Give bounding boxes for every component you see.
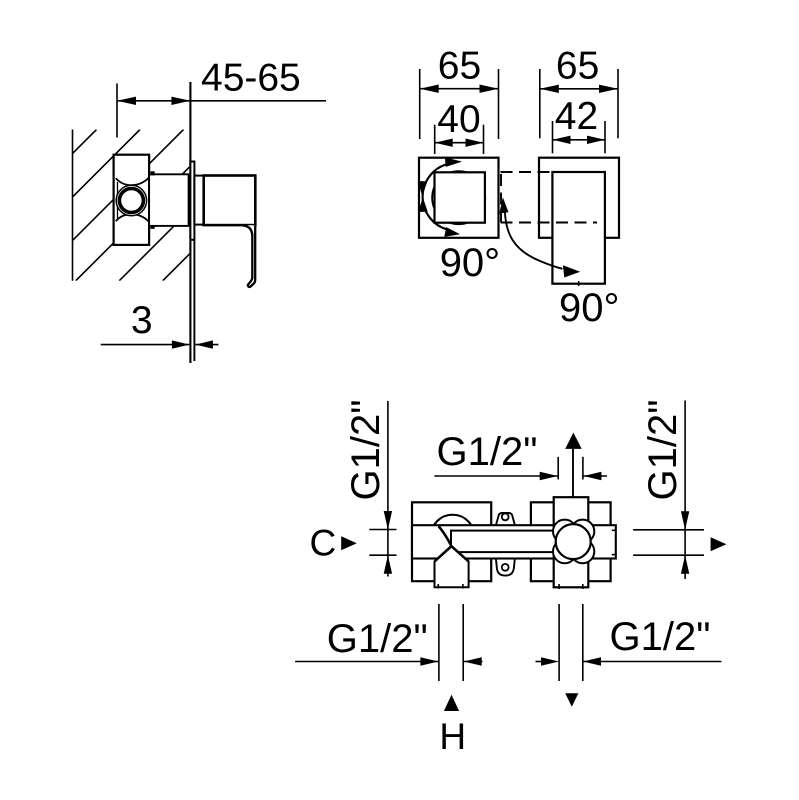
bottom left ext lines <box>438 604 440 681</box>
left inner square (handle) <box>435 172 485 222</box>
svg-text:C: C <box>310 523 337 564</box>
dashed line vertical <box>500 174 502 222</box>
right dim arrow up <box>681 555 689 574</box>
svg-text:G1/2": G1/2" <box>327 617 428 661</box>
wall left boundary <box>72 130 74 281</box>
dimension 65 left line <box>420 88 499 90</box>
wall hatching <box>0 130 314 281</box>
bracket tab bottom <box>496 558 515 575</box>
left dim arrow down <box>384 511 392 530</box>
svg-text:65: 65 <box>556 45 599 88</box>
svg-text:90°: 90° <box>440 241 501 285</box>
right vertical dim line <box>684 401 686 580</box>
left vertical dim line <box>387 401 389 577</box>
clover petal NW <box>553 520 576 543</box>
curve arrowhead end <box>563 265 580 277</box>
body waist curve top <box>116 178 149 185</box>
waterway curve <box>439 526 452 545</box>
bottom right dim tail <box>536 661 543 663</box>
svg-text:H: H <box>439 716 466 757</box>
dimension 45-65 extension line <box>116 84 118 138</box>
bracket tab top <box>496 513 515 525</box>
dimension 65 left ext lines <box>419 69 421 139</box>
top dim opposite arrow <box>583 475 607 477</box>
dimension 3 line <box>101 344 190 346</box>
pipe <box>451 531 573 553</box>
left ticks <box>369 529 396 531</box>
right port cap thread ticks <box>612 529 616 531</box>
dashed line top <box>501 171 553 173</box>
clover central circle <box>556 524 591 559</box>
screw hole bottom <box>502 564 509 571</box>
line below triangle <box>572 449 574 497</box>
svg-text:40: 40 <box>437 98 480 141</box>
svg-text:45-65: 45-65 <box>201 57 301 100</box>
handle mid tick <box>578 281 580 286</box>
dimension 3 tail right <box>195 344 218 346</box>
bottom right ext lines <box>558 604 560 681</box>
H triangle up <box>444 695 459 711</box>
body waist curve bottom <box>116 214 149 221</box>
bottom right dim line <box>583 661 721 663</box>
curve arrowhead start <box>499 197 508 213</box>
dimension 45-65 line <box>117 100 326 102</box>
handle body <box>204 176 256 226</box>
arrow 3 pointing left <box>195 340 213 348</box>
arrow 3 pointing right <box>172 340 190 348</box>
svg-text:65: 65 <box>438 45 481 88</box>
dimension 40 line <box>435 142 484 144</box>
dimension 42 line <box>553 139 606 141</box>
clover petal NE <box>571 520 594 543</box>
left cartridge circle <box>431 515 475 559</box>
rotation arrow curve <box>505 210 563 269</box>
dashed line bottom <box>501 222 598 224</box>
flange inner edge <box>117 182 119 219</box>
top flow triangle up <box>565 433 582 449</box>
port thread ticks right <box>558 584 560 589</box>
svg-text:G1/2": G1/2" <box>610 615 711 659</box>
right dim arrow down <box>681 511 689 530</box>
cartridge housing <box>149 174 189 226</box>
right flow triangle <box>711 537 727 551</box>
svg-text:G1/2": G1/2" <box>344 400 388 501</box>
clip tab top <box>150 171 154 175</box>
svg-text:42: 42 <box>555 95 598 138</box>
bottom port left <box>435 546 469 587</box>
arrow left 45-65 <box>117 97 136 105</box>
svg-text:G1/2": G1/2" <box>437 430 538 474</box>
handle lever <box>243 225 256 287</box>
svg-text:3: 3 <box>131 299 153 342</box>
bottom left opposite arrow <box>464 661 483 663</box>
bottom left dim line <box>295 661 438 663</box>
clover petal SW <box>553 540 576 563</box>
inlet circle ring <box>119 189 143 213</box>
right valve square <box>531 502 611 581</box>
arrow right 45-65 <box>171 97 190 105</box>
arc arrowhead bottom <box>444 227 460 237</box>
right outer square <box>539 158 619 238</box>
valve rough body <box>114 155 150 245</box>
top ext lines <box>557 457 559 480</box>
left dim arrow up <box>384 555 392 574</box>
rotation arc <box>423 164 447 229</box>
screw hole top <box>502 514 509 521</box>
C flow triangle <box>341 536 357 550</box>
port roof strokes <box>435 546 469 561</box>
inlet circle outer <box>116 185 146 215</box>
arc arrowhead top <box>445 157 462 167</box>
arc arrowhead lower-left <box>418 197 427 212</box>
top dim line <box>434 475 557 477</box>
left valve square <box>412 502 491 581</box>
clover petal SE <box>571 540 594 563</box>
port thread ticks left <box>437 584 439 589</box>
left outer square <box>419 158 499 238</box>
dimension 65 right ext lines <box>539 69 541 138</box>
down triangle <box>565 693 578 707</box>
right vertical slab <box>554 497 589 587</box>
cartridge circle behind <box>432 171 485 224</box>
svg-text:G1/2": G1/2" <box>641 400 685 501</box>
clip tab bottom <box>150 225 154 229</box>
trim plate <box>190 162 194 240</box>
arc arrowhead upper-left <box>418 181 427 196</box>
connecting band <box>412 525 616 558</box>
handle neck <box>194 176 203 225</box>
right ticks <box>633 529 704 531</box>
dimension 42 ext lines <box>552 121 554 153</box>
right inner rect (handle down) <box>552 172 605 284</box>
plate extension line <box>193 240 195 361</box>
svg-text:90°: 90° <box>559 286 620 330</box>
dimension 65 right line <box>540 88 618 90</box>
dimension 40 ext lines <box>434 125 436 154</box>
wall face line <box>189 82 191 363</box>
